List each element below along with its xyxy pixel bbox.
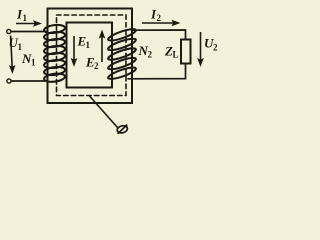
label N2 — [138, 43, 153, 60]
svg-text:2: 2 — [213, 43, 218, 53]
winding N1 (primary coil) — [44, 24, 66, 83]
flux leader line — [90, 96, 118, 128]
voltage arrow U2 (down) — [198, 32, 203, 66]
load ZL (impedance box) — [181, 40, 191, 64]
label N1 — [21, 51, 36, 68]
svg-text:2: 2 — [148, 50, 153, 60]
emf arrow E1 (down) — [72, 36, 77, 66]
wire: secondary top (to load) — [133, 30, 186, 40]
label E1 — [77, 34, 91, 51]
svg-text:2: 2 — [157, 13, 162, 23]
svg-text:L: L — [173, 50, 179, 60]
svg-text:2: 2 — [94, 61, 99, 71]
label I2 — [150, 7, 162, 24]
svg-text:1: 1 — [23, 13, 28, 23]
svg-text:1: 1 — [31, 58, 36, 68]
label E2 — [85, 55, 99, 72]
label I1 — [16, 7, 28, 24]
wire: primary bottom lead — [11, 80, 47, 82]
emf arrow E2 (up) — [100, 31, 105, 62]
label U2 — [204, 36, 218, 53]
label U1 — [9, 35, 23, 52]
terminal: primary top — [7, 29, 11, 33]
current arrow I1 — [16, 21, 41, 26]
transformer core outer outline — [48, 9, 133, 104]
wire: primary top lead — [11, 31, 47, 33]
transformer core window (inner outline) — [67, 23, 113, 88]
arrows — [10, 21, 203, 73]
current arrow I2 — [142, 21, 179, 26]
voltage arrow U1 (down) — [10, 36, 15, 73]
flux path (dashed) — [57, 15, 127, 96]
flux symbol Phi — [116, 125, 128, 134]
label ZL — [164, 44, 179, 60]
wire: secondary bottom (return) — [128, 64, 186, 79]
svg-text:1: 1 — [86, 40, 91, 50]
winding N2 (secondary coil) — [107, 27, 137, 81]
terminal: primary bottom — [7, 79, 11, 83]
